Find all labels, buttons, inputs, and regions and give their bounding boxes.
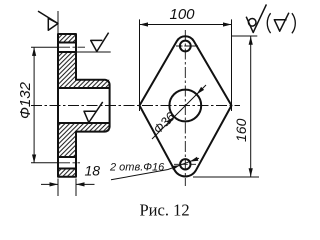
top bolt hole edges in section	[58, 43, 76, 53]
svg-text:18: 18	[85, 163, 101, 179]
roughness: check with circle	[246, 4, 266, 32]
main horizontal centerline	[31, 105, 240, 107]
svg-text:100: 100	[170, 6, 196, 23]
central bore circle	[169, 90, 201, 122]
hatching: upper L-region	[58, 52, 110, 88]
top bolt hole	[180, 41, 191, 52]
dimension 18: extension lines	[58, 179, 76, 197]
parenthesis left	[267, 13, 270, 33]
bore surface line extended right	[76, 51, 111, 53]
dimension 160: extension lines	[193, 36, 259, 177]
svg-text:Ф132: Ф132	[17, 81, 34, 119]
roughness symbol on left face	[38, 11, 58, 30]
svg-text:Рис. 12: Рис. 12	[140, 201, 190, 220]
hatching: plate bottom band	[58, 169, 76, 177]
diamond plate outline	[140, 36, 232, 176]
bottom bolt hole horizontal centerline	[174, 163, 197, 165]
svg-text:160: 160	[233, 118, 249, 142]
top bolt hole centerline (left view)	[31, 46, 59, 48]
dimension 160: line	[250, 36, 252, 177]
top bolt hole horizontal centerline	[176, 45, 198, 47]
bottom bolt hole	[180, 159, 190, 169]
dimension F132 line	[33, 48, 35, 163]
F36 leader line through bore	[152, 85, 206, 139]
svg-text:2 отв.Ф16: 2 отв.Ф16	[109, 162, 165, 174]
roughness in parens: triangle	[274, 13, 289, 32]
dimension 100: extension lines	[140, 19, 232, 111]
dimension 100: line	[140, 24, 232, 26]
hatching: plate top band	[58, 34, 76, 43]
bottom bolt hole edges in section	[58, 157, 76, 169]
flange section outline	[58, 34, 110, 177]
vertical centerline	[184, 30, 186, 186]
bore edges in section	[58, 88, 110, 123]
dimension 18: line and arrows	[41, 183, 95, 185]
hatching: lower L-region	[58, 123, 110, 157]
roughness symbol on hole surface	[91, 33, 109, 52]
parenthesis right	[292, 13, 295, 33]
roughness symbol in bore	[84, 102, 103, 123]
surface extension line above plate	[57, 11, 59, 34]
bottom bolt hole centerline (left view)	[31, 162, 59, 164]
leader for bolt holes	[111, 158, 199, 180]
